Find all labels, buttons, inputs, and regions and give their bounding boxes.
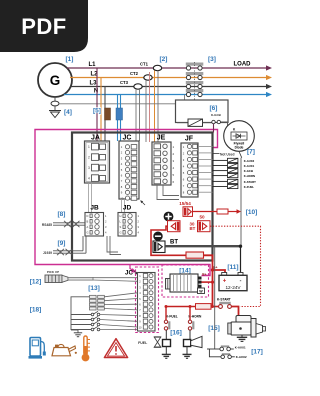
svg-text:10: 10 (120, 196, 123, 200)
charging alternator dashed boundary (162, 265, 209, 297)
ground (starter) (237, 335, 247, 341)
wire battery minus drop (240, 246, 242, 272)
JC1 label (125, 269, 138, 276)
generator neutral wire (51, 97, 59, 110)
K-START contact (213, 297, 232, 308)
wire JC to JD (122, 199, 125, 213)
svg-text:[17]: [17] (251, 349, 263, 356)
wire N (64, 89, 272, 98)
connector JE (152, 135, 175, 186)
svg-text:[18]: [18] (30, 307, 42, 314)
svg-text:FUEL: FUEL (138, 341, 148, 345)
ground (fuel valve) (162, 347, 171, 359)
svg-text:+: + (223, 279, 227, 285)
CT2 secondary wires (146, 72, 150, 142)
Not Used label (213, 152, 235, 156)
svg-text:D: D (87, 214, 89, 218)
relay coil K-GCB (177, 119, 203, 126)
svg-text:[12]: [12] (30, 279, 42, 286)
sender terminal grid (90, 295, 105, 310)
wire fuse to battery plus (204, 255, 226, 272)
svg-text:G: G (50, 73, 61, 88)
horn (184, 330, 203, 348)
voltage tap L3 wire (104, 87, 106, 142)
connector JD (118, 205, 140, 237)
switch 1 (71, 311, 100, 316)
ground (horn) (183, 347, 192, 359)
fuse main red (186, 252, 204, 258)
svg-text:W: W (199, 289, 203, 293)
svg-text:15/54: 15/54 (179, 201, 191, 206)
minus polarity symbol (153, 232, 162, 241)
icon thermometer (82, 336, 90, 361)
svg-text:JF: JF (185, 136, 194, 143)
svg-text:K-AUX2: K-AUX2 (236, 355, 247, 359)
icon warning triangle (104, 339, 127, 358)
junction red main (211, 268, 214, 271)
svg-text:J1939: J1939 (43, 251, 52, 255)
wire red down to start bus (212, 270, 214, 307)
svg-text:[1]: [1] (66, 56, 74, 63)
svg-text:1: 1 (88, 145, 90, 149)
wire D+ magenta loop (35, 130, 218, 276)
BT terminal (153, 240, 178, 253)
svg-text:K-AUX1: K-AUX1 (235, 345, 246, 349)
connector JB (85, 205, 107, 237)
30 terminal (168, 221, 196, 232)
switch 3 (71, 321, 100, 326)
battery 12-24V (219, 273, 247, 291)
ground (generator) (49, 111, 61, 118)
switch 4 (71, 326, 100, 331)
svg-text:-: - (240, 278, 242, 284)
relay K-AUX2 (213, 158, 255, 163)
svg-text:[8]: [8] (58, 211, 66, 218)
svg-text:K-GCB: K-GCB (211, 113, 222, 117)
svg-text:K-FUEL: K-FUEL (244, 185, 255, 189)
svg-text:[7]: [7] (247, 149, 255, 156)
wires JF to relays (198, 146, 213, 192)
switch bus (71, 297, 90, 330)
voltage tap L1 wire (96, 68, 98, 141)
wire magenta branch to JC1 (130, 265, 137, 273)
fuse on 15/54 wire (217, 209, 228, 214)
PDF badge (0, 0, 88, 52)
flywheel diode callout circle (224, 121, 255, 152)
connector JC (119, 135, 139, 201)
svg-text:K-AUX2: K-AUX2 (244, 159, 255, 163)
svg-text:[11]: [11] (227, 264, 238, 271)
svg-text:G: G (87, 231, 89, 235)
relay K-START (213, 179, 257, 184)
wires pickup to JC1 (93, 278, 138, 282)
junction battery minus (239, 245, 242, 248)
K-AUX1 contact (207, 345, 246, 351)
svg-text:[15]: [15] (208, 325, 220, 332)
relay K-AUX1 (213, 163, 255, 168)
wire relay common (240, 158, 242, 246)
svg-text:B+: B+ (213, 266, 218, 270)
svg-text:H: H (120, 214, 122, 218)
svg-text:JD: JD (123, 205, 132, 212)
50 terminal (198, 221, 211, 232)
relay K-FUEL (213, 184, 255, 189)
voltage tap N wires (118, 95, 121, 142)
red dotted 50 wire (210, 226, 261, 306)
contactor GCB poles (186, 62, 204, 119)
svg-text:Diode: Diode (235, 145, 244, 149)
wire to [10] arrow (228, 209, 241, 214)
K-FUEL contact (164, 307, 177, 331)
svg-text:PICK UP: PICK UP (47, 270, 59, 274)
wire sleeve brown (105, 108, 111, 120)
svg-text:BT: BT (170, 240, 178, 246)
K-GCB driver sub-box [6] (176, 100, 229, 123)
svg-text:PDF: PDF (21, 14, 67, 39)
svg-text:JB: JB (90, 205, 99, 212)
switch 2 (71, 316, 100, 321)
CT3 secondary wires (136, 89, 140, 141)
svg-text:[9]: [9] (58, 240, 66, 247)
svg-text:JC: JC (125, 269, 133, 276)
svg-text:2: 2 (88, 156, 90, 160)
svg-text:CT2: CT2 (130, 71, 139, 76)
controller main box (72, 133, 213, 261)
CT1 (140, 62, 162, 71)
generator G (38, 63, 72, 97)
svg-text:RS485: RS485 (42, 223, 52, 227)
CT3 (120, 80, 142, 89)
svg-text:[6]: [6] (210, 105, 218, 112)
relay K-HORN (213, 174, 255, 179)
svg-text:G: G (120, 231, 122, 235)
svg-text:LOAD: LOAD (234, 62, 252, 68)
connector JA (85, 135, 110, 184)
wire L2 (70, 72, 272, 81)
wire aux feed (214, 246, 216, 349)
svg-text:3: 3 (88, 166, 90, 170)
wire BT minus (thick) (165, 245, 241, 247)
ground (neutral bond) (180, 104, 189, 108)
wires switches to JC1 (100, 293, 138, 330)
icon oil can (52, 344, 77, 355)
svg-text:K-FUEL: K-FUEL (166, 315, 178, 319)
alternator (166, 273, 207, 292)
K-AUX2 contact (209, 349, 247, 359)
svg-text:S: S (120, 225, 122, 229)
svg-text:L1: L1 (88, 62, 96, 68)
svg-text:B+: B+ (202, 273, 206, 277)
pickup sensor (45, 270, 93, 283)
wires JD down (107, 236, 121, 255)
starter motor (228, 316, 266, 338)
svg-text:[13]: [13] (88, 285, 100, 292)
svg-text:CT3: CT3 (120, 80, 129, 85)
wire 30 terminal red feed (151, 226, 186, 255)
J1939 port wires (43, 236, 86, 255)
ground (switch bus) (71, 330, 82, 337)
svg-text:K-START: K-START (244, 180, 256, 184)
svg-text:CT1: CT1 (140, 62, 149, 67)
svg-text:A: A (87, 225, 89, 229)
wires JE to terminals (157, 185, 179, 200)
W terminal box (198, 288, 205, 294)
wire L1 (67, 62, 272, 71)
RS485 port wires (42, 221, 85, 227)
svg-text:50: 50 (199, 215, 205, 220)
svg-text:[16]: [16] (170, 330, 182, 337)
callout leader line (239, 151, 242, 157)
svg-text:BT: BT (190, 226, 196, 231)
connector JC1 (138, 273, 156, 332)
fuel valve (154, 330, 171, 347)
connector JF (181, 136, 198, 198)
JC1 dashed boundary (136, 267, 159, 333)
K-HORN contact (188, 307, 202, 331)
15/54 terminal (179, 201, 192, 217)
svg-text:K-START: K-START (217, 297, 231, 301)
svg-text:[5]: [5] (93, 108, 101, 115)
plus polarity symbol (164, 212, 174, 222)
wire 15/54 to [10] (193, 211, 218, 213)
arrow to JC pin10 (140, 200, 145, 205)
svg-text:12-24V: 12-24V (225, 285, 241, 290)
svg-text:K-AUX1: K-AUX1 (244, 164, 255, 168)
CT2 (130, 71, 152, 80)
svg-text:[4]: [4] (64, 109, 72, 116)
icon fuel pump (29, 338, 46, 359)
wire L3 (70, 81, 272, 90)
red start bus (165, 304, 215, 310)
wire sleeve blue (116, 108, 123, 120)
voltage tap L2 wire (100, 78, 102, 142)
svg-text:[10]: [10] (246, 209, 258, 216)
svg-text:[2]: [2] (160, 56, 168, 63)
svg-text:L3: L3 (89, 81, 97, 87)
K-GCB aux contact (203, 120, 228, 132)
wire K-START to starter (231, 307, 238, 316)
relay K-GCB (213, 169, 253, 174)
CT1 secondary wires (155, 71, 159, 143)
neutral-earth bond wire (59, 95, 185, 104)
svg-text:B: B (87, 220, 89, 224)
svg-text:[3]: [3] (208, 56, 216, 63)
svg-text:Not Used: Not Used (220, 152, 234, 156)
svg-text:K-HORN: K-HORN (244, 174, 255, 178)
svg-text:K-GCB: K-GCB (244, 169, 253, 173)
wire JA to JB (89, 183, 92, 213)
svg-text:4: 4 (88, 177, 90, 181)
svg-text:JE: JE (157, 135, 166, 142)
wire alternator B+ to red main (202, 281, 215, 284)
